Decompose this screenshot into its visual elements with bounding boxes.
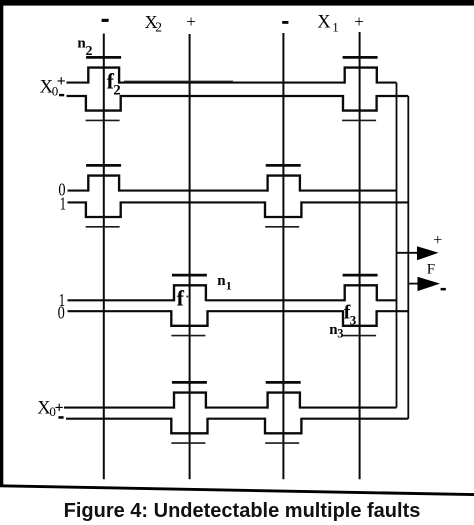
transistor pair f2/n2: lower diffusion bridge [86, 95, 121, 111]
transistor pair f2/n2: upper diffusion bridge [88, 68, 119, 84]
transistor pair f1/n1: gate bar (upper) [172, 274, 207, 277]
wire: row 0 (third pair, lower) segment 1 [68, 310, 172, 312]
svg-text:+: + [433, 232, 442, 249]
node label: minus over column 1 [102, 19, 109, 22]
wire: row X0+ (top pair, upper) segment 3 [377, 82, 396, 84]
svg-text:+: + [186, 12, 196, 31]
transistor pair col2-row4: gate bar (upper) [172, 381, 207, 384]
transistor pair f3/n3: upper diffusion bridge [345, 285, 377, 301]
transistor pair col4-row1: gate bar (lower) [342, 119, 376, 121]
svg-text:3: 3 [350, 312, 357, 327]
transistor pair f2/n2: gate bar (upper) [86, 56, 121, 59]
node label: minus of F output [441, 288, 446, 291]
wire: row 1 (third pair, upper) segment 1 [68, 299, 175, 301]
wire: row 1 (third pair, upper) segment 2 [206, 299, 345, 301]
wire: X1 minus column (vertical) [282, 33, 284, 479]
transistor pair col3-row4: gate bar (lower) [265, 442, 299, 444]
wire: row 0 (second pair, upper) segment 1 [68, 190, 89, 192]
wire: X2 minus column (vertical) [103, 34, 105, 480]
transistor pair f1/n1: upper diffusion bridge [174, 285, 206, 301]
wire: X1 plus column (vertical) [359, 32, 361, 479]
wire: row 0 (third pair, lower) segment 3 [377, 310, 408, 312]
wire: row X0- (top pair, lower) segment 2 [121, 95, 343, 97]
transistor pair col3-row2: upper diffusion bridge [268, 176, 300, 192]
transistor pair col1-row2: upper diffusion bridge [88, 176, 119, 192]
wire: F- bus vertical [407, 96, 409, 419]
transistor pair col3-row4: upper diffusion bridge [268, 393, 300, 409]
svg-text:2: 2 [113, 82, 121, 98]
wire: row 0 (second pair, upper) segment 2 [119, 190, 268, 192]
wire: F- output stub [408, 283, 419, 285]
svg-text:2: 2 [155, 20, 162, 35]
wire: row X0+ (top pair, upper) segment 1 [67, 82, 89, 84]
transistor pair col2-row4: lower diffusion bridge [171, 418, 207, 434]
transistor pair col4-row1: upper diffusion bridge [345, 68, 377, 84]
transistor pair col1-row2: gate bar (lower) [86, 226, 120, 228]
transistor pair f3/n3: gate bar (lower) [342, 335, 376, 337]
transistor pair col1-row2: lower diffusion bridge [86, 201, 121, 217]
wire: row 1 (second pair, lower) segment 1 [68, 201, 87, 203]
transistor pair f1/n1: lower diffusion bridge [171, 310, 207, 326]
transistor pair col1-row2: gate bar (upper) [86, 164, 121, 167]
svg-text:3: 3 [337, 326, 343, 340]
transistor pair col3-row4: gate bar (upper) [266, 381, 301, 384]
svg-text:1: 1 [60, 193, 67, 213]
wire: F+ bus vertical [396, 83, 398, 408]
transistor pair f2/n2: gate bar (lower) [86, 119, 120, 121]
node label: minus of bottom X0 [58, 416, 63, 419]
wire: row X0- (bottom pair, lower) segment 3 [302, 418, 409, 420]
wire: row X0+ (bottom pair, upper) segment 2 [206, 407, 268, 409]
svg-text:1: 1 [332, 20, 339, 35]
wire: row X0+ (bottom pair, upper) segment 1 [64, 407, 175, 409]
svg-text:f: f [177, 285, 185, 310]
transistor pair col3-row2: lower diffusion bridge [265, 201, 301, 217]
wire: row X0+ (top pair, upper) segment 2 [119, 82, 345, 84]
transistor pair f3/n3: lower diffusion bridge [343, 310, 377, 326]
wire: row 1 (second pair, lower) segment 3 [302, 201, 409, 203]
wire: row X0+ (bottom pair, upper) segment 3 [300, 407, 396, 409]
transistor pair col3-row2: gate bar (upper) [266, 164, 301, 167]
svg-text:+: + [354, 12, 364, 31]
transistor pair f3/n3: gate bar (upper) [343, 274, 378, 277]
transistor pair f1/n1: gate bar (lower) [171, 335, 205, 337]
transistor pair col4-row1: lower diffusion bridge [343, 95, 377, 111]
node label: minus over column 3 [282, 21, 288, 24]
svg-text:0: 0 [58, 303, 65, 323]
wire: row 0 (second pair, upper) segment 3 [300, 190, 396, 192]
wire: F+ output stub [397, 252, 419, 254]
wire: row 0 (third pair, lower) segment 2 [208, 310, 344, 312]
caption: Figure 4 [5, 500, 474, 523]
wire: row 1 (third pair, upper) segment 3 [377, 299, 396, 301]
transistor pair col2-row4: upper diffusion bridge [174, 393, 206, 409]
transistor pair col3-row4: lower diffusion bridge [265, 418, 301, 434]
svg-text:2: 2 [86, 44, 93, 59]
transistor pair col4-row1: gate bar (upper) [343, 56, 378, 59]
wire: row X0- (top pair, lower) segment 3 [377, 95, 408, 97]
wire: row X0+ ghost overlap [124, 80, 233, 82]
node label: minus of top X0 [59, 94, 64, 96]
wire: row X0- (top pair, lower) segment 1 [67, 95, 87, 97]
svg-text:1: 1 [226, 279, 232, 293]
arrow: F+ output [417, 246, 439, 260]
svg-text:X: X [317, 12, 331, 32]
wire: X2 plus column (vertical) [189, 34, 191, 479]
transistor pair col3-row2: gate bar (lower) [265, 226, 299, 228]
wire: row X0- (bottom pair, lower) segment 1 [66, 418, 172, 420]
wire: row X0- (bottom pair, lower) segment 2 [208, 418, 266, 420]
wire: row 1 (second pair, lower) segment 2 [121, 201, 265, 203]
transistor pair col2-row4: gate bar (lower) [171, 442, 205, 444]
svg-text:F: F [427, 262, 435, 278]
arrow: F- output [418, 277, 441, 291]
svg-text:+: + [57, 73, 66, 90]
svg-text:+: + [55, 400, 64, 417]
